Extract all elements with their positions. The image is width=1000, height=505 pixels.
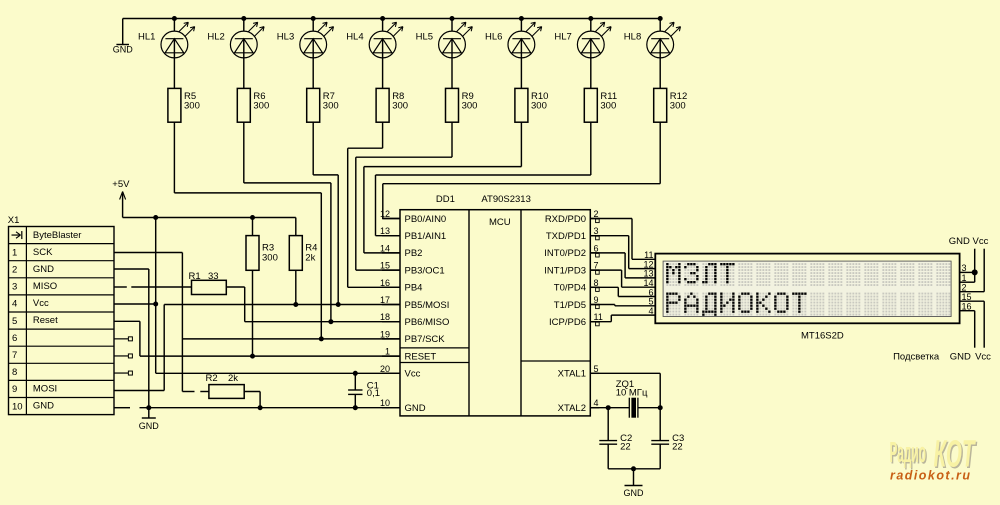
svg-text:12: 12 bbox=[380, 209, 390, 219]
svg-text:2k: 2k bbox=[305, 253, 315, 264]
svg-text:11: 11 bbox=[594, 312, 603, 322]
svg-text:PB5/MOSI: PB5/MOSI bbox=[405, 300, 450, 311]
svg-text:7: 7 bbox=[594, 261, 599, 271]
svg-text:PB0/AIN0: PB0/AIN0 bbox=[405, 214, 447, 225]
svg-text:2k: 2k bbox=[228, 373, 238, 384]
svg-text:XTAL1: XTAL1 bbox=[558, 369, 586, 380]
svg-text:TXD/PD1: TXD/PD1 bbox=[546, 231, 586, 242]
svg-text:AT90S2313: AT90S2313 bbox=[481, 194, 530, 205]
svg-text:17: 17 bbox=[380, 295, 390, 305]
svg-text:T1/PD5: T1/PD5 bbox=[554, 300, 586, 311]
svg-text:GND: GND bbox=[33, 264, 54, 275]
svg-text:300: 300 bbox=[670, 101, 686, 112]
svg-text:RESET: RESET bbox=[405, 351, 437, 362]
svg-text:300: 300 bbox=[462, 101, 478, 112]
svg-text:6: 6 bbox=[12, 333, 17, 344]
svg-text:13: 13 bbox=[380, 226, 390, 236]
svg-text:Vcc: Vcc bbox=[975, 352, 991, 363]
svg-text:T0/PD4: T0/PD4 bbox=[554, 283, 586, 294]
svg-text:MOSI: MOSI bbox=[33, 384, 57, 395]
svg-text:3: 3 bbox=[12, 282, 17, 293]
svg-text:2: 2 bbox=[594, 209, 599, 219]
svg-text:22: 22 bbox=[672, 442, 683, 453]
svg-text:X1: X1 bbox=[8, 215, 20, 226]
svg-text:SCK: SCK bbox=[33, 247, 53, 258]
svg-text:300: 300 bbox=[184, 101, 200, 112]
svg-text:HL3: HL3 bbox=[277, 31, 294, 42]
svg-text:GND: GND bbox=[405, 403, 426, 414]
svg-text:1: 1 bbox=[385, 347, 390, 357]
svg-text:PB4: PB4 bbox=[405, 283, 423, 294]
svg-text:10 МГц: 10 МГц bbox=[616, 388, 648, 399]
svg-text:R2: R2 bbox=[206, 373, 218, 384]
svg-text:HL4: HL4 bbox=[346, 31, 363, 42]
svg-text:20: 20 bbox=[380, 364, 390, 374]
svg-text:HL7: HL7 bbox=[554, 31, 571, 42]
svg-text:Vcc: Vcc bbox=[33, 298, 49, 309]
svg-text:0,1: 0,1 bbox=[367, 388, 380, 399]
svg-text:GND: GND bbox=[33, 401, 54, 412]
svg-text:8: 8 bbox=[12, 367, 17, 378]
svg-text:GND: GND bbox=[624, 488, 645, 498]
svg-text:16: 16 bbox=[380, 278, 390, 288]
svg-text:ICP/PD6: ICP/PD6 bbox=[549, 317, 586, 328]
svg-text:MISO: MISO bbox=[33, 281, 57, 292]
svg-text:HL1: HL1 bbox=[138, 31, 155, 42]
svg-text:7: 7 bbox=[12, 350, 17, 361]
svg-text:Vcc: Vcc bbox=[973, 236, 989, 247]
svg-text:33: 33 bbox=[208, 271, 219, 282]
svg-text:HL2: HL2 bbox=[207, 31, 224, 42]
svg-text:XTAL2: XTAL2 bbox=[558, 403, 586, 414]
svg-text:4: 4 bbox=[12, 299, 17, 310]
svg-text:300: 300 bbox=[253, 101, 269, 112]
svg-text:300: 300 bbox=[262, 253, 278, 264]
svg-text:1: 1 bbox=[12, 247, 17, 258]
svg-text:10: 10 bbox=[12, 401, 23, 412]
svg-text:GND: GND bbox=[950, 352, 971, 363]
svg-text:PB7/SCK: PB7/SCK bbox=[405, 334, 446, 345]
svg-text:Радио: Радио bbox=[890, 437, 927, 469]
svg-text:19: 19 bbox=[380, 329, 390, 339]
svg-text:MCU: MCU bbox=[489, 217, 511, 228]
svg-text:DD1: DD1 bbox=[436, 194, 455, 205]
svg-text:PB2: PB2 bbox=[405, 248, 423, 259]
svg-text:R1: R1 bbox=[189, 271, 201, 282]
svg-text:300: 300 bbox=[323, 101, 339, 112]
svg-text:PB6/MISO: PB6/MISO bbox=[405, 317, 450, 328]
svg-text:Reset: Reset bbox=[33, 315, 58, 326]
svg-text:5: 5 bbox=[594, 364, 599, 374]
svg-text:INT1/PD3: INT1/PD3 bbox=[544, 265, 586, 276]
svg-text:PB3/OC1: PB3/OC1 bbox=[405, 265, 445, 276]
svg-text:9: 9 bbox=[12, 384, 17, 395]
svg-text:3: 3 bbox=[594, 226, 599, 236]
svg-text:4: 4 bbox=[594, 398, 599, 408]
svg-text:PB1/AIN1: PB1/AIN1 bbox=[405, 231, 447, 242]
svg-text:radiokot.ru: radiokot.ru bbox=[890, 469, 970, 483]
svg-text:14: 14 bbox=[380, 243, 390, 253]
svg-text:300: 300 bbox=[600, 101, 616, 112]
svg-text:HL8: HL8 bbox=[624, 31, 641, 42]
svg-text:10: 10 bbox=[380, 398, 390, 408]
svg-text:ByteBlaster: ByteBlaster bbox=[33, 230, 82, 241]
svg-text:4: 4 bbox=[648, 306, 653, 316]
svg-text:+5V: +5V bbox=[112, 179, 130, 190]
svg-text:6: 6 bbox=[594, 243, 599, 253]
svg-text:GND: GND bbox=[113, 45, 134, 55]
svg-text:MT16S2D: MT16S2D bbox=[801, 331, 844, 342]
svg-text:HL6: HL6 bbox=[485, 31, 502, 42]
svg-text:8: 8 bbox=[594, 278, 599, 288]
svg-text:18: 18 bbox=[380, 312, 390, 322]
svg-text:HL5: HL5 bbox=[416, 31, 433, 42]
svg-text:9: 9 bbox=[594, 295, 599, 305]
svg-text:22: 22 bbox=[620, 442, 631, 453]
svg-text:RXD/PD0: RXD/PD0 bbox=[545, 214, 586, 225]
svg-text:5: 5 bbox=[12, 316, 17, 327]
svg-text:GND: GND bbox=[139, 421, 160, 431]
svg-text:Подсветка: Подсветка bbox=[893, 352, 940, 363]
svg-text:15: 15 bbox=[380, 261, 390, 271]
svg-text:Vcc: Vcc bbox=[405, 369, 421, 380]
svg-text:300: 300 bbox=[392, 101, 408, 112]
svg-text:300: 300 bbox=[531, 101, 547, 112]
svg-text:GND: GND bbox=[949, 236, 970, 247]
svg-text:2: 2 bbox=[12, 264, 17, 275]
svg-text:INT0/PD2: INT0/PD2 bbox=[544, 248, 586, 259]
